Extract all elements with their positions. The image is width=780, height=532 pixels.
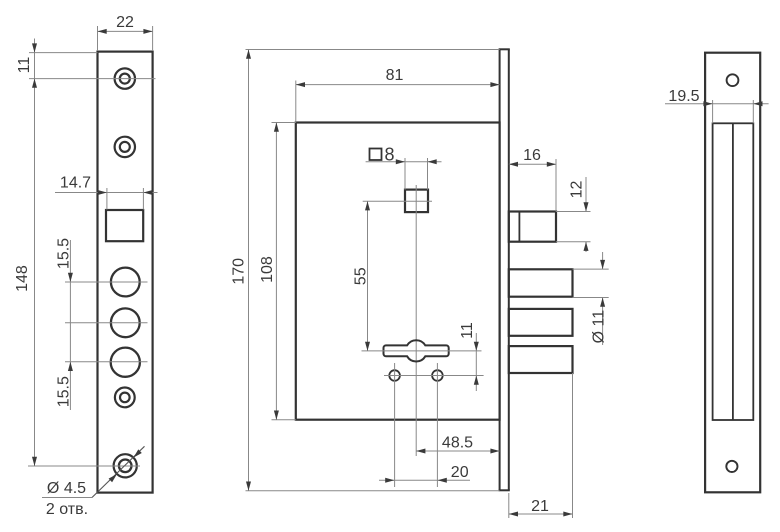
extension line right for 16 xyxy=(555,159,557,212)
right view box recess rectangle xyxy=(713,123,754,420)
leader shelf line for hole note xyxy=(42,497,92,499)
right view recess middle divider xyxy=(732,123,734,420)
arrow down at bottom hole (148) xyxy=(32,457,37,466)
extension line deadbolt circle 2 xyxy=(65,322,148,324)
left view small ringed hole xyxy=(115,388,135,408)
svg-text:Ø 11: Ø 11 xyxy=(591,310,608,344)
svg-text:108: 108 xyxy=(259,256,276,283)
latch bolt block xyxy=(509,212,556,242)
left view deadbolt hole 2 xyxy=(111,308,140,337)
15.5 arrows at circle centers xyxy=(68,273,73,282)
dimension 55 line xyxy=(367,201,369,351)
extension lines for 19.5 xyxy=(712,100,714,123)
dimension 21 line xyxy=(509,513,573,515)
dimension diameter-11 upper tail xyxy=(602,252,604,269)
svg-text:148: 148 xyxy=(14,265,31,292)
deadbolt cylinder 3 xyxy=(509,346,573,373)
svg-text:Ø 4.5: Ø 4.5 xyxy=(47,480,86,497)
handle screw hole left xyxy=(389,370,400,381)
extension line plate top left xyxy=(29,52,98,54)
dimension 170 line xyxy=(248,50,250,491)
extension line faceplate right for 21 xyxy=(508,493,510,518)
svg-text:19.5: 19.5 xyxy=(668,88,699,105)
svg-text:22: 22 xyxy=(116,14,134,31)
left view: faceplate front, plate outline xyxy=(98,52,153,493)
dimension 48.5 line xyxy=(416,450,499,452)
svg-text:55: 55 xyxy=(353,267,370,285)
extension line top hole center xyxy=(29,78,156,80)
dimension 15.5 shared vertical line xyxy=(69,240,71,410)
dimension 81 line xyxy=(296,84,500,86)
dimension 11 upper tail xyxy=(475,333,477,351)
left view deadbolt hole 1 xyxy=(111,268,140,297)
extension line bolt bottom for diameter 11 xyxy=(573,297,609,299)
middle view faceplate edge right line xyxy=(508,49,510,490)
svg-text:14.7: 14.7 xyxy=(60,175,91,192)
dimension 20 line xyxy=(379,479,470,481)
spindle centerline horizontal xyxy=(363,200,432,202)
deadbolt cylinder 1 xyxy=(509,269,573,296)
extension line top for 170 xyxy=(246,49,500,51)
screw hole right centerline vertical xyxy=(436,363,438,487)
left view screw hole second (ringed) xyxy=(115,137,135,157)
svg-text:20: 20 xyxy=(451,464,469,481)
arrow up at hole center (11/148) xyxy=(32,79,37,88)
svg-text:81: 81 xyxy=(386,67,404,84)
svg-text:170: 170 xyxy=(231,258,248,285)
dimension 11 lower tail xyxy=(475,376,477,392)
arrow down at plate top (11) xyxy=(32,43,37,52)
dimension diameter-11 lower tail xyxy=(602,298,604,346)
extension line bolt top for diameter 11 xyxy=(573,268,609,270)
keyhole lever shape xyxy=(384,340,449,361)
right view top screw hole xyxy=(727,74,739,86)
extension line body top for 108 xyxy=(272,122,296,124)
svg-text:48.5: 48.5 xyxy=(442,435,473,452)
extension line deadbolt circle 3 xyxy=(65,361,148,363)
svg-text:8: 8 xyxy=(384,145,394,165)
svg-text:11: 11 xyxy=(459,322,476,339)
handle screw hole right xyxy=(432,370,443,381)
svg-text:15.5: 15.5 xyxy=(55,376,72,407)
dimension 11 middle segment xyxy=(475,351,477,376)
extension line left for 81 xyxy=(295,81,297,123)
keyhole centerline horizontal xyxy=(362,350,482,352)
dimension 108 line xyxy=(275,123,277,420)
extension line body bottom for 108 xyxy=(272,419,296,421)
left view deadbolt hole 3 xyxy=(111,348,140,377)
extension lines for square 8 xyxy=(404,158,406,190)
left view screw hole top (ringed) xyxy=(115,68,135,88)
dimension 12 upper tail xyxy=(585,177,587,212)
svg-text:15.5: 15.5 xyxy=(55,238,72,269)
extension line latch top for 12 xyxy=(556,211,591,213)
dimension 11-148 shared vertical line xyxy=(34,39,36,467)
svg-text:21: 21 xyxy=(531,498,549,515)
svg-text:16: 16 xyxy=(523,147,541,164)
dimension 14.7 line xyxy=(55,192,158,194)
svg-text:12: 12 xyxy=(569,181,586,199)
extension line bottom hole center xyxy=(28,465,140,467)
square symbol of label xyxy=(370,149,382,161)
spindle square hole xyxy=(405,190,428,213)
leader diagonal to bottom hole xyxy=(92,446,145,497)
svg-text:2 отв.: 2 отв. xyxy=(46,501,88,518)
dimension square-8 line xyxy=(366,161,442,163)
middle view faceplate top cap xyxy=(499,48,510,50)
extension line latch bottom for 12 xyxy=(556,241,591,243)
screw holes centerline horizontal xyxy=(384,375,484,377)
extension line bolt face for 21 xyxy=(572,373,574,518)
dimension 19.5 line xyxy=(665,103,769,105)
spindle centerline vertical xyxy=(415,185,417,456)
svg-text:11: 11 xyxy=(16,57,33,74)
latch bolt bevel line xyxy=(518,212,520,241)
leader arrow upper-right of hole xyxy=(133,449,141,457)
deadbolt cylinder 2 xyxy=(509,309,573,336)
left view bottom countersunk hole xyxy=(114,454,137,477)
dimension 12 lower tail xyxy=(585,242,587,252)
dimension 14.7 extension lines xyxy=(106,188,108,210)
dimension 14.7 arrows xyxy=(98,190,107,195)
right view bottom screw hole xyxy=(726,461,737,472)
middle view faceplate edge left line xyxy=(499,49,501,490)
right view: strike plate outline xyxy=(705,53,760,493)
left view latch square cutout xyxy=(106,210,143,241)
screw hole left centerline vertical xyxy=(394,363,396,487)
dimension 16 line xyxy=(509,163,556,165)
dimension 22 extension lines xyxy=(97,26,99,51)
extension line deadbolt circle 1 xyxy=(65,281,148,283)
middle view faceplate bottom cap xyxy=(499,489,510,491)
leader arrowhead at hole lower-left xyxy=(109,474,117,482)
dimension 22 line with arrows xyxy=(98,30,153,32)
extension line bottom for 170 xyxy=(246,490,500,492)
middle view: lock body outline xyxy=(296,123,500,420)
